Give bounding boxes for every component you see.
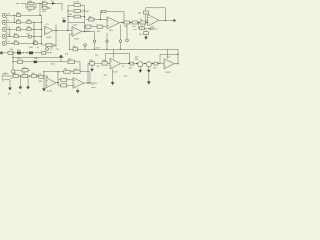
value label	[92, 83, 96, 89]
resistor R9	[27, 26, 31, 30]
wire	[19, 76, 21, 87]
svg-text:100u: 100u	[51, 63, 55, 65]
ground	[8, 88, 12, 96]
ground	[147, 81, 151, 84]
wire feedback rail U4a	[44, 71, 58, 73]
svg-text:TL072: TL072	[74, 39, 81, 41]
node junction	[87, 82, 88, 83]
connector P1	[93, 40, 95, 50]
wire supply drop 4	[126, 25, 128, 40]
connector P3	[119, 40, 121, 50]
wire feedback rail U6	[160, 53, 178, 55]
wire jack ground chain	[6, 17, 8, 41]
wire into U4a	[44, 76, 47, 80]
wire network2 right rail	[84, 6, 86, 23]
ground	[144, 37, 148, 40]
wire output row U5	[121, 63, 165, 65]
wire lower signal row	[88, 62, 110, 64]
wire output U4a	[56, 82, 60, 84]
wire	[145, 30, 147, 37]
connector J5	[2, 41, 10, 45]
ground	[76, 88, 80, 93]
wire U4b noninverting path	[58, 84, 73, 86]
ground	[26, 87, 30, 90]
wire right rail of network 1	[35, 4, 37, 9]
junction X	[59, 55, 62, 58]
connector J6	[151, 27, 159, 31]
ground	[147, 70, 151, 73]
ground	[19, 87, 23, 95]
wire feedback rail U5	[106, 53, 130, 55]
wire bottom input row	[19, 75, 45, 77]
wire vertical link	[13, 15, 15, 22]
ground	[90, 69, 94, 72]
wire output U1b	[82, 31, 95, 33]
resistor R2	[42, 6, 51, 12]
resistor R11	[46, 43, 57, 47]
node junctions chain	[121, 22, 146, 23]
svg-text:1M: 1M	[22, 73, 25, 75]
node junction	[129, 63, 130, 64]
wire	[123, 12, 125, 23]
wire rung3	[68, 16, 85, 18]
capacitor C2	[42, 1, 47, 5]
resistor R25	[42, 52, 46, 55]
resistor R36	[129, 62, 134, 70]
node junction	[55, 30, 56, 31]
svg-text:47k: 47k	[97, 31, 100, 33]
resistor R8	[27, 19, 31, 23]
wire	[36, 3, 44, 5]
svg-text:220k: 220k	[28, 1, 32, 3]
wire middle row c	[13, 61, 80, 63]
wire deep ground U5	[112, 69, 114, 82]
wire vertical link	[9, 29, 11, 36]
wire bus to amp	[41, 15, 43, 45]
resistor R10	[33, 40, 37, 44]
capacitor C5	[34, 58, 39, 63]
resistor R35	[102, 60, 107, 65]
wire U2 inverting input row	[86, 19, 108, 21]
svg-text:1k: 1k	[122, 66, 124, 68]
diode D2	[29, 47, 34, 54]
wire	[129, 54, 131, 64]
node junction	[123, 22, 124, 23]
node junction	[165, 20, 166, 21]
node junctions network2	[67, 10, 85, 17]
resistor R33 on rail	[58, 69, 74, 74]
resistor R29	[22, 73, 28, 78]
node junction	[39, 3, 40, 4]
svg-text:out: out	[134, 28, 137, 31]
svg-text:10k: 10k	[33, 40, 36, 42]
wire	[43, 72, 45, 89]
node label	[62, 18, 66, 22]
svg-text:47k: 47k	[16, 26, 19, 28]
wire feedback rail U1b	[68, 22, 85, 24]
svg-text:1k: 1k	[144, 24, 146, 26]
op-amp U5	[110, 58, 121, 73]
svg-text:47k: 47k	[16, 12, 19, 14]
wire supply drop 3	[120, 25, 122, 40]
wire row d	[15, 69, 30, 71]
connector P2	[106, 40, 108, 50]
wire input row 2	[7, 21, 42, 23]
wire	[105, 54, 107, 62]
resistor R38	[153, 62, 157, 70]
wire ground stub	[148, 67, 150, 70]
svg-text:47k: 47k	[16, 19, 19, 21]
wire input row 1	[7, 14, 42, 16]
wire ground stub	[139, 67, 141, 70]
resistor R14	[86, 25, 92, 33]
svg-text:10k: 10k	[90, 60, 93, 62]
svg-text:tu: tu	[8, 19, 10, 22]
svg-text:10k: 10k	[10, 49, 13, 51]
svg-text:1M: 1M	[138, 13, 141, 15]
wire	[57, 72, 59, 86]
wire	[100, 12, 102, 20]
svg-text:10k: 10k	[27, 19, 30, 21]
connector P7	[12, 70, 15, 73]
op-amp U1a	[45, 24, 54, 39]
node junctions mesh	[9, 15, 42, 44]
wire rung2	[68, 10, 85, 12]
resistor R12	[74, 10, 89, 13]
diode D1	[17, 50, 22, 54]
wire middle row b	[13, 56, 64, 58]
svg-text:TL072: TL072	[165, 72, 172, 74]
node junctions lower row	[128, 63, 159, 64]
svg-text:TL072: TL072	[46, 90, 53, 92]
capacitor C4	[132, 21, 138, 28]
svg-text:C2 2n2: C2 2n2	[73, 2, 80, 4]
node junctions row a	[12, 52, 27, 53]
connector J2	[2, 19, 9, 24]
svg-text:reg: reg	[95, 54, 98, 56]
node junction	[65, 49, 70, 56]
resistor R21	[134, 27, 145, 31]
wire feedback rail U2	[101, 11, 125, 13]
node junction	[89, 82, 90, 83]
connector J7	[2, 72, 13, 81]
wire middle row a	[2, 52, 52, 54]
wire supply drop 1	[94, 32, 96, 41]
wire right riser	[177, 49, 179, 63]
wire	[67, 23, 69, 31]
resistor R18	[124, 21, 130, 28]
svg-text:56k: 56k	[69, 14, 72, 16]
resistor R30	[32, 73, 37, 78]
wire output U1a	[53, 30, 72, 32]
wire riser to lower row	[87, 63, 89, 83]
wire	[146, 8, 148, 21]
svg-text:22k: 22k	[64, 69, 67, 71]
svg-text:100u: 100u	[34, 58, 38, 60]
svg-text:10n: 10n	[28, 10, 31, 12]
wire to output jack row	[139, 23, 153, 29]
node junction	[177, 54, 178, 55]
svg-text:aux: aux	[16, 3, 19, 5]
wire bus left	[33, 22, 35, 43]
connector P5	[84, 44, 87, 50]
resistor R13	[69, 14, 81, 18]
connector J3	[2, 27, 10, 31]
wire	[56, 3, 62, 11]
svg-text:220k: 220k	[86, 31, 90, 33]
resistor R32	[61, 84, 67, 87]
wire	[9, 80, 11, 88]
wire feedback U1a	[42, 25, 56, 46]
wire rung1	[68, 5, 85, 7]
connector J1	[2, 13, 10, 17]
svg-text:rec: rec	[51, 1, 54, 3]
svg-text:sc: sc	[11, 78, 13, 80]
wire	[84, 23, 86, 32]
op-amp U3	[144, 14, 160, 30]
op-amp U1b	[72, 25, 82, 41]
resistor R7	[14, 40, 18, 44]
wire output U3	[159, 20, 174, 22]
resistor R27	[68, 59, 75, 64]
wire	[159, 54, 161, 63]
svg-text:ph: ph	[8, 13, 10, 15]
wire	[47, 3, 52, 5]
wire feedback rail U4b	[74, 71, 91, 73]
op-amp U4b	[73, 78, 84, 89]
svg-text:1M: 1M	[48, 8, 51, 10]
op-amp U6	[164, 57, 174, 74]
node label	[50, 47, 54, 51]
wire input row 3	[7, 28, 42, 30]
connector J4	[2, 33, 10, 38]
wire left riser	[12, 53, 14, 70]
resistor R19	[140, 19, 146, 28]
wire deep ground stub	[148, 73, 150, 81]
wire supply rail	[77, 48, 178, 50]
op-amp U4a	[46, 78, 56, 93]
capacitor C7	[38, 74, 43, 83]
wire	[164, 8, 166, 21]
wire rail	[41, 4, 43, 8]
svg-text:TL072: TL072	[46, 37, 53, 39]
resistor R31	[61, 78, 67, 81]
resistor R26	[17, 58, 22, 63]
connector P6	[46, 48, 49, 51]
wire power pin U6	[167, 49, 169, 58]
svg-text:47u: 47u	[153, 68, 156, 70]
wire left rail of network 1	[25, 4, 27, 9]
svg-text:in: in	[5, 72, 7, 74]
resistor R4	[16, 19, 20, 23]
ground	[42, 88, 46, 91]
wire ground stub	[91, 65, 93, 69]
wire network2 left rail	[67, 6, 69, 23]
node junction	[84, 31, 85, 32]
resistor R1	[28, 1, 35, 5]
wire from network1 down to input row	[39, 4, 41, 16]
wire	[21, 3, 27, 5]
wire power pin U5	[113, 49, 115, 58]
svg-text:100k: 100k	[53, 46, 57, 48]
wire	[27, 76, 29, 87]
wire	[89, 72, 91, 83]
ground	[111, 82, 115, 85]
node junctions riser	[12, 57, 13, 63]
wire X drop	[60, 58, 62, 62]
svg-text:47k: 47k	[14, 33, 17, 35]
resistor R34	[90, 60, 95, 65]
svg-text:1M: 1M	[86, 11, 89, 13]
terminal block	[0, 52, 2, 55]
resistor R22	[139, 32, 148, 36]
ground	[139, 70, 143, 73]
wire output U4b	[84, 82, 97, 84]
svg-text:47u: 47u	[38, 74, 41, 76]
svg-text:-15V: -15V	[103, 75, 108, 77]
connector P4	[126, 39, 129, 42]
capacitor C3	[73, 2, 81, 7]
svg-text:1k: 1k	[140, 19, 142, 21]
svg-text:reg: reg	[56, 48, 59, 50]
wire	[79, 62, 81, 72]
svg-text:ax: ax	[8, 41, 10, 43]
arrow terminal	[51, 1, 56, 5]
capacitor C1	[26, 7, 36, 13]
svg-text:47k: 47k	[13, 73, 16, 75]
wire output row U2	[120, 22, 148, 24]
wire noninverting stub U1b	[70, 34, 74, 49]
capacitor C10	[135, 56, 143, 66]
node junctions bottom row	[20, 75, 38, 76]
wire U4b inverting path	[58, 79, 73, 81]
node junction	[100, 19, 101, 20]
capacitor C6	[22, 69, 28, 72]
wire input row 4	[7, 35, 42, 37]
capacitor C9	[26, 34, 31, 38]
svg-text:10k: 10k	[102, 60, 105, 62]
svg-text:TL072: TL072	[112, 72, 119, 74]
svg-text:10k: 10k	[27, 26, 30, 28]
resistor R3	[16, 12, 20, 16]
resistor R5	[16, 26, 20, 30]
op-amp U2	[107, 17, 120, 32]
resistor R23	[73, 46, 78, 51]
svg-text:10k: 10k	[89, 16, 92, 18]
wire input row 5	[7, 42, 42, 44]
wire output U6	[174, 63, 178, 65]
resistor R24	[8, 49, 13, 55]
output terminal	[173, 19, 175, 21]
svg-text:10u: 10u	[132, 26, 135, 28]
node junction	[57, 82, 58, 83]
svg-text:10k: 10k	[65, 54, 68, 56]
op-amp input pin marks	[45, 18, 166, 86]
node junctions	[43, 71, 58, 72]
resistor R16	[89, 16, 95, 21]
node junction	[67, 30, 68, 31]
svg-text:10k: 10k	[68, 59, 71, 61]
resistor R17	[102, 10, 107, 12]
wire feedback rail U3	[146, 7, 166, 9]
wire supply drop 2	[106, 33, 108, 40]
resistor R20	[138, 11, 149, 15]
resistor R28	[13, 73, 19, 78]
node junction	[177, 63, 178, 64]
wire U2 plus input row	[85, 26, 109, 28]
resistor R15	[97, 25, 103, 33]
svg-text:mon: mon	[92, 87, 96, 89]
capacitor C8	[73, 69, 80, 74]
resistor R6	[14, 33, 18, 37]
capacitor C11	[146, 62, 151, 67]
svg-text:47u: 47u	[17, 58, 20, 60]
svg-text:47k: 47k	[14, 40, 17, 42]
